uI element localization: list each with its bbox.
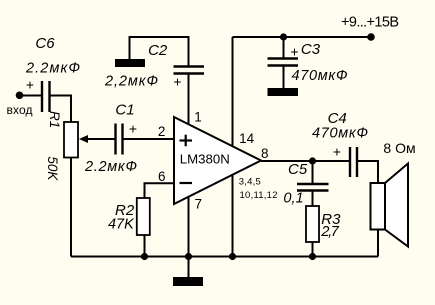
node input terminal [16,92,24,100]
svg-text:14: 14 [239,131,255,146]
svg-text:+: + [333,144,341,160]
svg-text:R1: R1 [47,111,62,128]
svg-text:+9...+15В: +9...+15В [341,15,399,31]
junction R3/rail [309,253,316,260]
power rail wire [233,36,372,38]
svg-text:3,4,5: 3,4,5 [239,177,261,188]
ground (bottom) [188,257,190,278]
svg-text:2,7: 2,7 [320,224,339,240]
capacitor C1 [84,101,137,175]
wire C4 to speaker [357,161,378,183]
+ input mark [180,139,193,141]
capacitor C3 [268,37,348,88]
- input mark [180,182,193,184]
svg-text:2.2мкФ: 2.2мкФ [84,159,137,175]
resistor R2 [108,198,150,235]
junction R2/rail [141,253,148,260]
svg-text:LM380N: LM380N [180,152,230,167]
svg-text:+: + [173,74,181,90]
svg-text:10,11,12: 10,11,12 [240,190,278,201]
speaker 8 Ом [371,140,416,247]
resistor R3 [306,191,341,243]
svg-text:470мкФ: 470мкФ [312,126,368,142]
wire input to C6 [20,95,42,97]
wire R3 bottom to rail [312,242,314,257]
wiper arrow [79,135,88,143]
ground pins wire (3,4,5,10,11,12) [232,175,234,257]
svg-text:50K: 50K [45,156,60,181]
svg-text:C1: C1 [115,101,134,118]
wire C6 to R1 top [50,96,72,123]
resistor R1 (potentiometer) [45,111,88,181]
wire wiper to C1 [86,138,115,140]
pin 8 output wire [261,160,350,162]
svg-text:0,1: 0,1 [283,191,303,207]
wire pin 6 to R2 [145,183,175,198]
svg-text:7: 7 [194,197,202,212]
svg-text:8 Ом: 8 Ом [383,140,415,156]
svg-text:+: + [290,44,298,60]
svg-text:2.2мкФ: 2.2мкФ [25,61,80,77]
svg-text:+: + [129,121,137,137]
pin 7 wire [188,197,190,257]
ground (under C3) [268,88,299,96]
pin 14 wire [232,37,234,147]
svg-text:C5: C5 [288,161,308,178]
svg-text:1: 1 [194,110,202,125]
svg-text:C3: C3 [301,41,321,58]
bottom ground rail wire [71,256,378,258]
ground (near C2) [115,59,145,67]
svg-text:8: 8 [261,146,269,161]
junction at C3 [280,33,287,40]
capacitor C6 [25,35,80,112]
wire C2 to pin 1 [188,74,190,125]
capacitor C4 [312,110,368,177]
wire C1 to pin 2 [123,138,175,140]
wire R1 bottom to rail [70,158,72,257]
svg-text:470мкФ: 470мкФ [292,68,348,84]
power terminal [367,33,375,41]
capacitor C2 [104,42,204,89]
capacitor C5 [283,161,328,207]
wire top-left from ground to C2/pin1 [130,37,189,66]
svg-text:C2: C2 [148,42,168,59]
svg-text:2,2мкФ: 2,2мкФ [104,73,158,89]
svg-text:47K: 47K [108,217,135,233]
svg-text:вход: вход [7,103,33,117]
svg-text:6: 6 [158,169,166,184]
node output junction [309,157,316,164]
wire R2 bottom to rail [144,235,146,257]
op-amp U1 LM380N [174,117,261,204]
svg-text:C6: C6 [35,35,55,52]
svg-text:2: 2 [158,124,166,139]
junction pin7/rail [185,253,192,260]
svg-text:+: + [26,77,34,93]
wire speaker bottom to rail [377,230,379,257]
junction gndpins/rail [229,253,236,260]
